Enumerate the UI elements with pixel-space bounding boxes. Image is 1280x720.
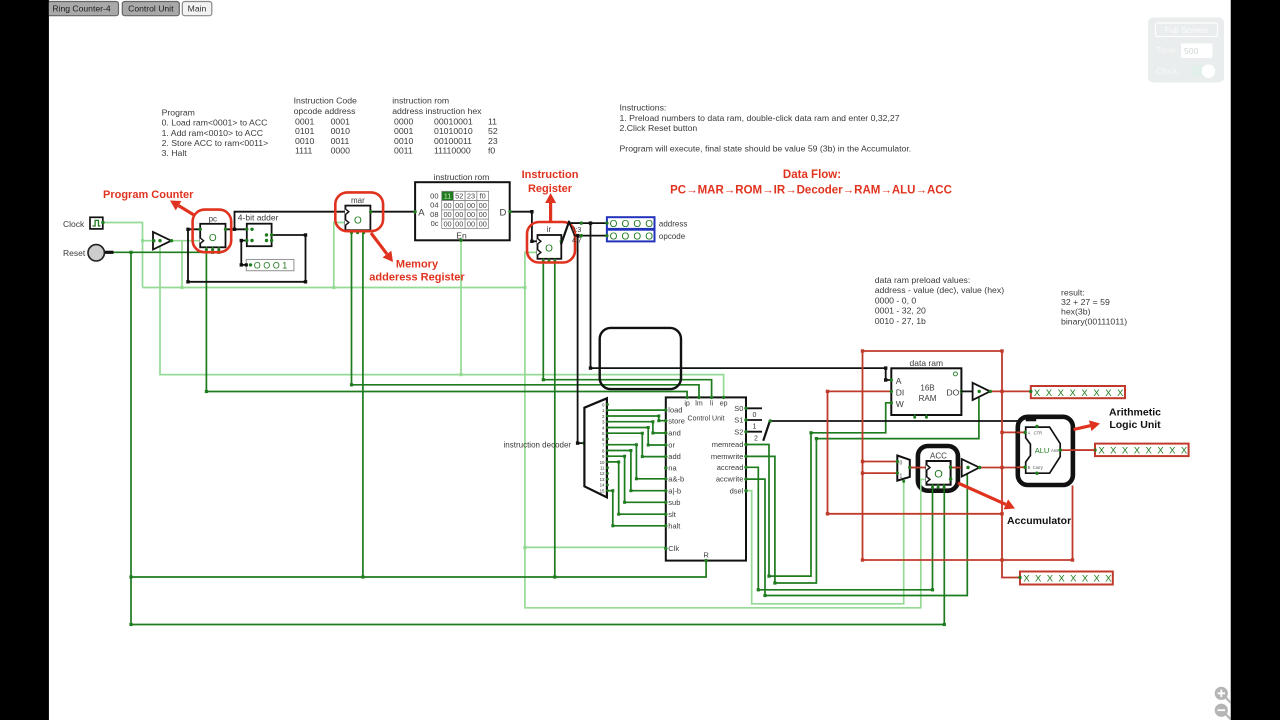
svg-text:X: X xyxy=(1169,446,1176,457)
svg-text:1: 1 xyxy=(900,474,903,480)
svg-text:O: O xyxy=(354,216,362,227)
svg-text:13: 13 xyxy=(600,477,605,482)
svg-text:3. Halt: 3. Halt xyxy=(162,148,188,158)
svg-text:Register: Register xyxy=(528,183,573,195)
svg-text:and: and xyxy=(668,429,681,438)
svg-text:0. Load ram<0001> to ACC: 0. Load ram<0001> to ACC xyxy=(162,118,268,128)
svg-text:11: 11 xyxy=(600,465,605,470)
buffer U1 clock driver xyxy=(153,232,171,250)
svg-text:ep: ep xyxy=(720,401,728,408)
svg-text:Ans: Ans xyxy=(1051,448,1058,453)
svg-text:data ram preload values:: data ram preload values: xyxy=(875,275,971,285)
svg-text:Data Flow:: Data Flow: xyxy=(783,169,841,181)
svg-text:ALU: ALU xyxy=(1035,446,1050,455)
svg-text:store: store xyxy=(668,416,685,425)
svg-text:O: O xyxy=(610,232,618,243)
svg-text:0000: 0000 xyxy=(331,146,350,156)
svg-text:Program will execute, final st: Program will execute, final state should… xyxy=(620,144,912,154)
register MAR xyxy=(345,206,370,231)
svg-text:slt: slt xyxy=(668,510,676,519)
LED display X bus 2 xyxy=(1095,444,1189,457)
svg-text:ir: ir xyxy=(547,225,552,234)
svg-text:X: X xyxy=(1081,388,1088,399)
svg-text:1: 1 xyxy=(753,424,757,431)
svg-text:X: X xyxy=(1070,388,1077,399)
wire reset net xyxy=(113,233,979,625)
svg-text:X: X xyxy=(1047,574,1054,585)
svg-text:adderess Register: adderess Register xyxy=(369,272,465,284)
svg-text:1. Preload numbers to data ram: 1. Preload numbers to data ram, double-c… xyxy=(620,113,900,123)
svg-text:00: 00 xyxy=(467,201,475,210)
svg-text:Clock: Clock xyxy=(63,219,85,229)
svg-text:binary(00111011): binary(00111011) xyxy=(1061,316,1127,326)
svg-text:lm: lm xyxy=(695,401,703,408)
svg-text:data ram: data ram xyxy=(910,358,944,368)
control unit xyxy=(666,397,746,560)
svg-text:Program Counter: Program Counter xyxy=(103,189,194,201)
svg-text:0010 - 27, 1b: 0010 - 27, 1b xyxy=(875,316,926,326)
svg-text:na: na xyxy=(668,464,677,473)
svg-text:Main: Main xyxy=(188,4,207,14)
svg-text:52: 52 xyxy=(455,192,463,201)
svg-text:O: O xyxy=(622,232,630,243)
svg-text:instruction decoder: instruction decoder xyxy=(504,440,572,449)
UI tabs xyxy=(44,2,119,16)
svg-text:0010: 0010 xyxy=(295,136,314,146)
svg-text:00: 00 xyxy=(479,219,487,228)
svg-text:Instruction Code: Instruction Code xyxy=(294,96,357,106)
red highlight circle: Instruction Register xyxy=(527,222,575,263)
svg-text:a|-b: a|-b xyxy=(668,486,681,495)
svg-text:Memory: Memory xyxy=(396,259,439,271)
svg-text:instruction rom: instruction rom xyxy=(392,96,449,106)
svg-text:O: O xyxy=(633,232,641,243)
register IR xyxy=(538,235,562,259)
svg-text:00: 00 xyxy=(455,210,463,219)
svg-text:0001 - 32, 20: 0001 - 32, 20 xyxy=(875,306,926,316)
svg-text:0: 0 xyxy=(753,412,757,419)
svg-text:11110000: 11110000 xyxy=(434,146,471,156)
instruction rom xyxy=(415,182,510,240)
wire pc feedback loop xyxy=(188,212,1037,443)
data ram 16B xyxy=(891,368,961,415)
svg-text:00: 00 xyxy=(443,210,451,219)
svg-text:Clock:: Clock: xyxy=(1156,66,1180,76)
svg-text:11: 11 xyxy=(444,192,452,201)
svg-text:S1: S1 xyxy=(734,416,743,425)
svg-text:12: 12 xyxy=(600,471,605,476)
svg-text:ACC: ACC xyxy=(930,452,947,461)
svg-text:W: W xyxy=(896,399,904,409)
svg-text:hex(3b): hex(3b) xyxy=(1061,307,1091,317)
svg-text:X: X xyxy=(1110,446,1117,457)
svg-text:a&-b: a&-b xyxy=(668,474,684,483)
svg-text:RAM: RAM xyxy=(919,394,937,403)
svg-text:Reset: Reset xyxy=(63,248,86,258)
svg-text:00: 00 xyxy=(443,201,451,210)
svg-text:0:3: 0:3 xyxy=(572,227,582,234)
svg-text:O: O xyxy=(645,232,653,243)
svg-text:Clk: Clk xyxy=(668,544,679,553)
svg-text:00100011: 00100011 xyxy=(434,136,472,146)
svg-text:X: X xyxy=(1117,388,1124,399)
svg-text:A: A xyxy=(896,376,902,386)
wire mar to rom xyxy=(371,211,415,213)
svg-text:O: O xyxy=(633,219,641,230)
svg-text:PC→MAR→ROM→IR→Decoder→RAM→ALU→: PC→MAR→ROM→IR→Decoder→RAM→ALU→ACC xyxy=(670,185,952,197)
svg-text:DI: DI xyxy=(896,387,905,397)
svg-text:0: 0 xyxy=(900,461,903,467)
svg-text:X: X xyxy=(1023,574,1030,585)
svg-text:Instructions:: Instructions: xyxy=(620,103,667,113)
svg-text:add: add xyxy=(668,452,681,461)
svg-text:accwrite: accwrite xyxy=(716,475,744,484)
wire rom D to ir xyxy=(511,212,537,242)
svg-text:X: X xyxy=(1046,388,1053,399)
ALU thick box xyxy=(1018,417,1073,485)
svg-text:0000: 0000 xyxy=(394,116,413,126)
svg-text:sub: sub xyxy=(668,498,680,507)
wires decoder to control unit xyxy=(608,410,665,526)
svg-text:load: load xyxy=(668,406,682,415)
control panel top right xyxy=(1148,18,1224,83)
svg-text:pc: pc xyxy=(209,215,217,224)
LED display: opcode xyxy=(607,230,655,242)
wire accwrite net xyxy=(747,468,967,596)
bus splitter 0:3 / 4:7 xyxy=(561,222,569,244)
wire memwrite net xyxy=(747,394,979,584)
svg-text:X: X xyxy=(1058,388,1065,399)
svg-text:00010001: 00010001 xyxy=(434,116,473,126)
svg-text:A: A xyxy=(418,208,425,219)
svg-text:f0: f0 xyxy=(480,192,486,201)
svg-text:08: 08 xyxy=(430,210,438,219)
svg-text:Instruction: Instruction xyxy=(522,169,579,181)
svg-text:halt: halt xyxy=(668,521,681,530)
svg-text:X: X xyxy=(1093,388,1100,399)
svg-text:01010010: 01010010 xyxy=(434,126,473,136)
svg-text:Arithmetic: Arithmetic xyxy=(1109,407,1161,419)
svg-text:00: 00 xyxy=(467,210,475,219)
svg-text:result:: result: xyxy=(1061,288,1085,298)
constant 0001 xyxy=(246,260,294,271)
svg-text:2.Click Reset button: 2.Click Reset button xyxy=(620,123,698,133)
svg-text:X: X xyxy=(1181,446,1188,457)
svg-text:address: address xyxy=(659,219,687,228)
svg-text:Control Unit: Control Unit xyxy=(688,416,725,423)
wire ip enable xyxy=(206,249,687,397)
red highlight circle: Memory address Register xyxy=(335,192,383,231)
empty annotation rounded box xyxy=(600,328,681,389)
op-amp ALU shape xyxy=(1026,427,1061,473)
svg-text:B: B xyxy=(1028,465,1031,470)
wire ir splitter to address leds xyxy=(569,222,606,224)
svg-text:O O O 1: O O O 1 xyxy=(254,260,288,270)
LED display: address xyxy=(607,217,655,229)
svg-text:X: X xyxy=(1105,388,1112,399)
svg-text:0010: 0010 xyxy=(394,136,413,146)
svg-text:X: X xyxy=(1070,574,1077,585)
svg-text:0010: 0010 xyxy=(331,126,350,136)
svg-text:0101: 0101 xyxy=(295,126,314,136)
svg-text:X: X xyxy=(1034,388,1041,399)
svg-text:0001: 0001 xyxy=(295,116,314,126)
wire accread net xyxy=(747,467,933,590)
svg-text:14: 14 xyxy=(600,483,605,488)
wire S bus to ALU ctr xyxy=(771,421,1037,426)
svg-text:00: 00 xyxy=(479,210,487,219)
svg-text:X: X xyxy=(1146,446,1153,457)
wire ir splitter to opcode leds xyxy=(574,235,606,237)
svg-text:S2: S2 xyxy=(734,427,743,436)
svg-text:4-bit adder: 4-bit adder xyxy=(238,212,279,222)
svg-text:00: 00 xyxy=(479,201,487,210)
svg-text:O: O xyxy=(209,233,217,244)
svg-text:A: A xyxy=(1028,430,1031,435)
svg-text:2. Store ACC to ram<0011>: 2. Store ACC to ram<0011> xyxy=(162,138,269,148)
svg-text:23: 23 xyxy=(488,136,498,146)
svg-text:00: 00 xyxy=(430,191,438,200)
svg-text:52: 52 xyxy=(488,126,498,136)
svg-text:S0: S0 xyxy=(734,404,743,413)
svg-text:or: or xyxy=(668,441,675,450)
svg-text:00: 00 xyxy=(467,219,475,228)
svg-text:X: X xyxy=(1058,574,1065,585)
svg-text:X: X xyxy=(1094,574,1101,585)
register ACC accumulator xyxy=(918,446,958,491)
svg-text:X: X xyxy=(1105,574,1112,585)
wire overlays crossing thick boxes xyxy=(911,432,1095,467)
svg-text:00: 00 xyxy=(455,201,463,210)
svg-text:opcode address: opcode address xyxy=(294,106,356,116)
svg-text:32 + 27 = 59: 32 + 27 = 59 xyxy=(1061,297,1110,307)
wire li enable xyxy=(543,261,711,397)
LED display X bus 3 xyxy=(1020,572,1113,585)
wire memread net xyxy=(747,403,891,576)
svg-text:Program: Program xyxy=(162,108,195,118)
svg-text:mar: mar xyxy=(351,196,365,205)
svg-text:Control Unit: Control Unit xyxy=(128,4,174,14)
register PC xyxy=(200,224,225,248)
svg-text:R: R xyxy=(703,551,709,560)
svg-text:Ring Counter-4: Ring Counter-4 xyxy=(52,4,110,14)
buffer U3 acc out xyxy=(962,459,980,476)
svg-text:O: O xyxy=(622,219,630,230)
svg-text:1111: 1111 xyxy=(295,146,313,156)
svg-text:memread: memread xyxy=(712,440,744,449)
svg-text:CTR: CTR xyxy=(1034,430,1043,435)
svg-text:X: X xyxy=(1082,574,1089,585)
bus joiner S0 S1 S2 xyxy=(764,421,770,440)
svg-text:ip: ip xyxy=(684,401,690,408)
svg-text:Accumulator: Accumulator xyxy=(1007,515,1071,527)
svg-text:memwrite: memwrite xyxy=(711,452,744,461)
svg-text:0001: 0001 xyxy=(394,126,413,136)
letterbox bars xyxy=(0,0,49,720)
svg-text:instruction rom: instruction rom xyxy=(434,172,490,182)
svg-text:11: 11 xyxy=(488,116,497,126)
svg-text:1. Add ram<0010> to ACC: 1. Add ram<0010> to ACC xyxy=(162,128,263,138)
svg-text:Logic Unit: Logic Unit xyxy=(1109,419,1161,431)
svg-text:00: 00 xyxy=(443,219,451,228)
zoom icons bottom right xyxy=(1226,698,1232,720)
svg-text:O: O xyxy=(934,469,943,481)
mux before ACC xyxy=(897,456,910,481)
svg-text:0011: 0011 xyxy=(331,136,350,146)
svg-text:Carry: Carry xyxy=(1033,465,1044,470)
wire clock net xyxy=(103,223,926,608)
svg-text:X: X xyxy=(1035,574,1042,585)
svg-text:accread: accread xyxy=(717,463,744,472)
svg-text:X: X xyxy=(1157,446,1164,457)
svg-text:X: X xyxy=(1098,446,1105,457)
svg-text:04: 04 xyxy=(430,201,438,210)
svg-text:0001: 0001 xyxy=(331,116,350,126)
svg-text:15: 15 xyxy=(600,488,605,493)
svg-text:Time:: Time: xyxy=(1156,45,1177,55)
svg-text:Full Screen: Full Screen xyxy=(1165,25,1209,35)
svg-text:X: X xyxy=(1122,446,1129,457)
svg-text:23: 23 xyxy=(467,192,475,201)
LED display X bus 1 xyxy=(1031,386,1125,398)
wire accumulator data net xyxy=(828,351,1095,578)
svg-text:DO: DO xyxy=(947,387,960,397)
svg-text:16B: 16B xyxy=(920,384,934,393)
svg-text:D: D xyxy=(500,208,507,219)
svg-text:500: 500 xyxy=(1184,46,1199,56)
red highlight circle: Program Counter xyxy=(193,210,232,253)
wire dsel net xyxy=(747,481,904,604)
svg-text:li: li xyxy=(710,401,714,408)
svg-text:2: 2 xyxy=(754,435,758,442)
svg-text:00: 00 xyxy=(455,219,463,228)
svg-text:4:7: 4:7 xyxy=(572,238,582,245)
svg-text:address - value (dec), value: address - value (dec), value (hex) xyxy=(875,285,1005,295)
svg-text:dsel: dsel xyxy=(730,486,744,495)
svg-text:0000 - 0, 0: 0000 - 0, 0 xyxy=(875,295,917,305)
buffer U2 ram DO xyxy=(962,390,973,392)
svg-text:f0: f0 xyxy=(488,146,495,156)
svg-text:opcode: opcode xyxy=(659,232,686,241)
svg-text:O: O xyxy=(545,244,553,255)
wire lm enable xyxy=(352,233,700,397)
svg-text:O: O xyxy=(610,219,618,230)
svg-text:X: X xyxy=(1134,446,1141,457)
svg-text:0011: 0011 xyxy=(394,146,413,156)
svg-text:address instruction hex: address instruction hex xyxy=(392,106,482,116)
svg-text:10: 10 xyxy=(600,460,605,465)
svg-text:O: O xyxy=(645,219,653,230)
svg-text:0c: 0c xyxy=(431,219,439,228)
